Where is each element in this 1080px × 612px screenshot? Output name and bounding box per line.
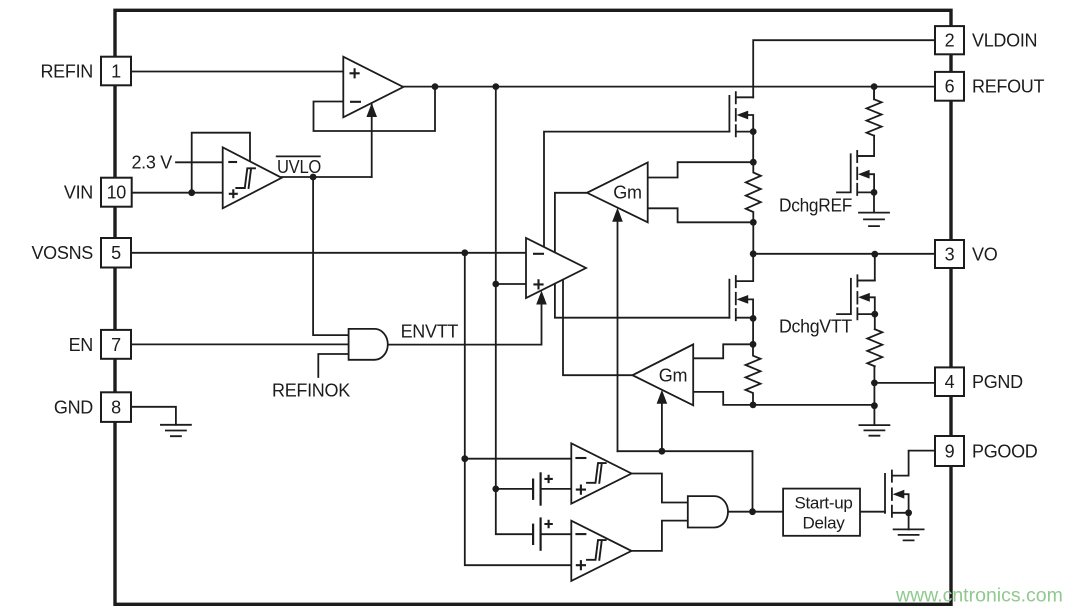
svg-text:Gm: Gm <box>659 365 687 385</box>
node R2 top junction <box>750 341 757 348</box>
wire R3 bottom to DchgREF drain <box>857 136 874 156</box>
ground symbol PGND <box>859 425 889 436</box>
wire R2 bottom to PGND ground node <box>753 404 874 406</box>
wire REFIN pin1 to buffer + input <box>131 71 343 73</box>
battery offset upper minus plate <box>532 480 534 499</box>
AND gate PGOOD <box>688 496 728 527</box>
svg-text:DchgREF: DchgREF <box>779 196 852 216</box>
node UVLO branch junction <box>310 174 317 181</box>
node line2 battery junction <box>492 486 499 493</box>
polarity mark lower battery <box>544 520 552 528</box>
wire REFINOK stub <box>318 354 348 377</box>
wire lower battery to comparator minus <box>541 533 572 535</box>
hysteresis glyph UVLO <box>236 168 255 188</box>
wire DchgVTT source to R4 <box>874 314 876 329</box>
node line1 comparator junction <box>461 455 468 462</box>
node R2 wire junction <box>871 402 878 409</box>
wire PGOOD FET drain to pin9 <box>909 451 935 476</box>
wire Gm1 input bracket bottom <box>648 208 754 222</box>
wire error amp top edge to top FET gate <box>544 132 729 247</box>
wire Gm1 enable vertical <box>617 222 619 451</box>
svg-text:1: 1 <box>111 62 121 82</box>
node line1 VOSNS sense vertical <box>465 253 572 565</box>
hysteresis glyph upper comparator <box>587 463 606 483</box>
wire lower comparator output to AND2 <box>632 521 688 551</box>
svg-text:2.3 V: 2.3 V <box>131 153 172 173</box>
node R1 top junction <box>750 159 757 166</box>
resistor R2 current sense bottom <box>746 344 761 405</box>
wire Gm2 enable vertical <box>661 404 663 451</box>
svg-text:4: 4 <box>945 372 955 392</box>
wire Gm2 output up to error amp bottom edge <box>563 280 633 375</box>
pin 2 VLDOIN <box>935 26 964 54</box>
Gm amplifier Gm2 <box>633 344 694 405</box>
pin 8 GND <box>101 392 131 422</box>
svg-text:VLDOIN: VLDOIN <box>972 31 1037 51</box>
svg-text:Delay: Delay <box>803 513 846 532</box>
wire VOSNS pin5 to error amp minus <box>131 252 526 254</box>
polarity marks buffer op-amp <box>350 68 360 78</box>
svg-text:3: 3 <box>945 244 955 264</box>
node line2 REFOUT sense vertical <box>496 87 533 535</box>
polarity marks upper comparator <box>575 457 586 459</box>
wire VIN pin10 to UVLO comparator plus <box>132 192 223 194</box>
wire VLDOIN pin2 to top FET drain <box>753 40 935 97</box>
polarity marks lower comparator <box>575 533 586 535</box>
transistor Q2 center sink FET <box>729 276 753 320</box>
svg-text:UVLO: UVLO <box>277 157 321 177</box>
transistor Q3 DchgREF FET <box>837 151 874 195</box>
wire PGOOD FET source to ground <box>908 513 910 530</box>
svg-text:PGND: PGND <box>972 372 1023 392</box>
svg-text:6: 6 <box>945 77 955 97</box>
svg-text:VO: VO <box>972 244 998 264</box>
battery offset lower minus plate <box>532 525 534 544</box>
svg-text:EN: EN <box>69 335 93 355</box>
node VO right junction <box>871 251 878 258</box>
Start-up Delay block <box>783 489 860 536</box>
node Q3 source junction <box>871 189 878 196</box>
wire Gm2 input bracket top <box>693 344 753 358</box>
wire R1 bottom to VO node <box>752 222 754 254</box>
wire UVLO comparator output <box>282 176 372 178</box>
wire UVLO branch down to ENVTT AND gate <box>313 177 349 335</box>
op-amp U1 REFIN buffer <box>343 57 403 118</box>
battery offset lower plus plate <box>539 519 541 550</box>
IC boundary box <box>115 10 951 604</box>
svg-text:8: 8 <box>111 398 121 418</box>
polarity marks UVLO comparator <box>228 161 237 163</box>
wire Gm1 output to center FET gate <box>555 193 730 318</box>
polarity marks error amp <box>533 253 544 255</box>
wire upper comparator output to AND2 <box>632 474 688 503</box>
wire PGND node to pin4 <box>874 382 935 384</box>
wire VO node down to center FET drain <box>752 254 754 281</box>
wire error amp plus input from line2 <box>496 283 526 285</box>
pin 1 REFIN <box>101 57 131 86</box>
op-amp U3 error amplifier <box>526 238 586 298</box>
node Q1 source junction <box>750 128 757 135</box>
svg-text:REFINOK: REFINOK <box>272 381 350 401</box>
node AND2 output junction <box>749 508 756 515</box>
svg-text:REFOUT: REFOUT <box>972 77 1045 97</box>
ground symbol at GND pin <box>161 425 191 436</box>
pin 5 VOSNS <box>101 238 131 268</box>
transistor Q4 DchgVTT FET <box>837 275 875 319</box>
comparator U2 UVLO <box>223 147 282 208</box>
svg-text:2: 2 <box>945 31 955 51</box>
svg-text:Start-up: Start-up <box>794 494 852 513</box>
wire 2.3V to UVLO comparator minus <box>176 161 223 163</box>
svg-text:9: 9 <box>945 441 955 461</box>
node Gm2 enable junction <box>659 448 666 455</box>
wire UVLO hysteresis feedback box <box>192 133 250 193</box>
resistor R1 current sense top <box>746 162 761 222</box>
pin 7 EN <box>101 330 131 359</box>
wire VO to DchgVTT drain <box>857 254 874 280</box>
arrowhead UVLO enable <box>366 103 377 117</box>
pin 6 REFOUT <box>935 72 964 101</box>
svg-text:10: 10 <box>107 183 127 203</box>
resistor R4 DchgVTT <box>867 329 882 366</box>
node Q4 source junction <box>871 311 878 318</box>
wire upper comparator minus input <box>465 458 572 460</box>
wire VO line to pin3 <box>753 253 935 255</box>
node Q2 source junction <box>750 315 757 322</box>
pin 3 VO <box>935 240 964 268</box>
node R1 bottom junction <box>750 219 757 226</box>
wire UVLO enable arrow into buffer <box>371 105 373 178</box>
wire REFOUT to R3 top handled by REFOUT line; R3 column <box>873 87 875 100</box>
arrowhead Gm2 enable <box>657 390 668 404</box>
comparator U5 PGOOD lower <box>571 521 631 581</box>
node PGND junction <box>871 380 878 387</box>
wire enable chain horizontal <box>618 450 753 452</box>
node VIN hysteresis junction <box>188 189 195 196</box>
wire enable chain down to AND2 output node <box>752 451 754 512</box>
arrowhead ENVTT enable <box>536 291 547 305</box>
wire buffer feedback loop <box>314 87 436 131</box>
ground symbol PGOOD <box>894 529 924 540</box>
battery offset upper plus plate <box>539 473 541 504</box>
pin 9 PGOOD <box>935 436 964 466</box>
transistor Q5 PGOOD open-drain FET <box>885 471 909 517</box>
svg-text:REFIN: REFIN <box>40 62 93 82</box>
hysteresis glyph lower comparator <box>587 540 606 560</box>
wire R4 bottom through PGND node to ground <box>873 366 875 425</box>
transistor Q1 top pass FET <box>729 92 753 136</box>
svg-text:DchgVTT: DchgVTT <box>779 317 852 337</box>
node VO left junction <box>750 250 757 257</box>
node buffer output junction <box>432 83 439 90</box>
node Q5 source junction <box>905 509 912 516</box>
svg-text:VIN: VIN <box>64 183 93 203</box>
ground symbol DchgREF <box>859 213 889 227</box>
wire ENVTT from AND output to error amp enable arrow <box>388 304 542 345</box>
comparator U4 PGOOD upper <box>571 443 631 503</box>
resistor R3 DchgREF <box>867 87 882 136</box>
wire Gm2 input bracket bottom <box>693 392 753 405</box>
wire AND2 output to Start-up Delay <box>728 511 783 513</box>
wire Gm1 input bracket top <box>648 162 754 177</box>
wire buffer output to REFOUT pin6 <box>403 86 935 88</box>
svg-text:PGOOD: PGOOD <box>972 441 1038 461</box>
node error amp plus junction <box>492 281 499 288</box>
svg-text:5: 5 <box>111 243 121 263</box>
wire center FET source to R2 top <box>752 318 754 345</box>
wire upper battery to comparator plus <box>496 488 572 490</box>
AND gate ENVTT <box>349 329 388 360</box>
Gm amplifier Gm1 <box>587 163 648 223</box>
svg-text:7: 7 <box>111 335 121 355</box>
wire EN pin7 to AND gate <box>131 343 349 345</box>
wire Start-up Delay to PGOOD FET gate <box>860 511 885 513</box>
wire DchgREF source to ground <box>873 192 875 212</box>
wire top FET source to R1 top <box>752 132 754 163</box>
pin 4 PGND <box>935 367 964 396</box>
svg-text:ENVTT: ENVTT <box>401 322 459 342</box>
node R3 top junction <box>871 83 878 90</box>
svg-text:GND: GND <box>54 398 93 418</box>
svg-text:Gm: Gm <box>613 183 641 203</box>
polarity mark upper battery <box>544 475 552 483</box>
svg-text:VOSNS: VOSNS <box>31 243 93 263</box>
arrowhead Gm1 enable <box>612 208 623 222</box>
svg-text:www.cntronics.com: www.cntronics.com <box>895 585 1063 607</box>
wire GND pin8 to ground <box>130 407 176 425</box>
node line1 top junction <box>461 249 468 256</box>
node line2 top junction <box>492 83 499 90</box>
pin 10 VIN <box>101 178 132 207</box>
node R2 bottom junction <box>750 402 757 409</box>
